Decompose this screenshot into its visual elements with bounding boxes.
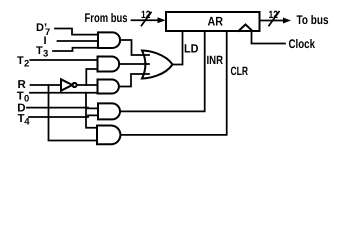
node R label bbox=[18, 79, 27, 91]
and-gate A4 (D T4) bbox=[98, 103, 120, 119]
or-gate G1 (LD) bbox=[142, 51, 173, 79]
node D label bbox=[17, 103, 25, 115]
node AR label bbox=[208, 15, 224, 29]
svg-text:CLR: CLR bbox=[231, 64, 249, 78]
node To-bus label bbox=[297, 13, 329, 27]
node INR label bbox=[207, 53, 224, 67]
wire AND4 output up to INR input of AR bbox=[120, 31, 205, 111]
node T2 label bbox=[17, 55, 29, 69]
and-gate A3 (R' T0) bbox=[98, 80, 119, 94]
wire Clock to AR bbox=[252, 31, 286, 44]
clock triangle on AR bbox=[239, 25, 253, 32]
svg-text:AR: AR bbox=[208, 15, 224, 29]
node LD label bbox=[184, 42, 199, 56]
wire T2 to AND2 top input bbox=[30, 59, 97, 61]
svg-text:2: 2 bbox=[24, 58, 29, 69]
svg-text:T: T bbox=[17, 90, 24, 102]
node From-bus label bbox=[85, 11, 128, 25]
wire OR output up to LD input of AR bbox=[173, 31, 183, 65]
and-gate A1 (D'7 I T3) bbox=[98, 32, 120, 48]
svg-text:4: 4 bbox=[24, 116, 30, 127]
wire D'7 to AND1 top input bbox=[55, 29, 98, 35]
wire T4 to AND4 bottom input bbox=[29, 115, 98, 117]
wire AR output to bus bbox=[260, 20, 284, 22]
wire AND5 output up to CLR input of AR bbox=[120, 31, 226, 135]
svg-text:INR: INR bbox=[207, 53, 224, 67]
svg-text:R: R bbox=[18, 79, 27, 91]
wire T0 branch down to AND5 top input bbox=[86, 93, 97, 128]
svg-text:T: T bbox=[17, 55, 24, 67]
wire R' branch up to AND2 bottom input bbox=[86, 69, 97, 85]
node T4 label bbox=[18, 113, 31, 127]
inverter (NOT gate) on R bbox=[61, 79, 77, 90]
svg-text:From bus: From bus bbox=[85, 11, 128, 25]
bus-width slash 12 (input) bbox=[141, 9, 151, 26]
svg-text:Clock: Clock bbox=[289, 37, 316, 51]
node I label bbox=[44, 35, 47, 47]
wire R to inverter input bbox=[31, 84, 62, 86]
svg-text:To bus: To bus bbox=[297, 13, 329, 27]
wire I to AND1 middle input bbox=[58, 40, 99, 42]
svg-text:T: T bbox=[36, 45, 43, 57]
svg-text:I: I bbox=[44, 35, 47, 47]
wire AND2 output to OR middle input bbox=[119, 63, 149, 65]
wire D to AND4 top input bbox=[27, 107, 98, 110]
wire R' inverter output to AND3 top input bbox=[77, 84, 98, 86]
svg-text:12: 12 bbox=[269, 9, 279, 21]
wire AND3 output to OR bottom input bbox=[119, 74, 149, 87]
svg-text:12: 12 bbox=[141, 9, 151, 21]
wire AND1 output to OR top input bbox=[120, 40, 149, 55]
wire From bus into AR bbox=[132, 19, 159, 21]
node D'7 label bbox=[36, 22, 50, 38]
and-gate A5 (R T0 = CLR) bbox=[97, 126, 120, 145]
register AR box bbox=[166, 12, 260, 31]
node T0 label bbox=[17, 90, 29, 104]
node Clock label bbox=[289, 37, 316, 51]
arrowhead to bus bbox=[283, 18, 291, 24]
node CLR label bbox=[231, 64, 249, 78]
node T3 label bbox=[36, 45, 48, 60]
wire T0 to AND3 bottom input bbox=[30, 92, 98, 94]
svg-text:3: 3 bbox=[43, 49, 48, 60]
wire R branch down to AND5 bottom input bbox=[49, 85, 98, 141]
and-gate A2 (R' T2) bbox=[98, 57, 120, 72]
arrowhead into AR bbox=[158, 17, 166, 23]
svg-text:LD: LD bbox=[184, 42, 199, 56]
wire T3 to AND1 bottom input bbox=[53, 48, 98, 51]
bus-width slash 12 (output) bbox=[269, 9, 280, 26]
